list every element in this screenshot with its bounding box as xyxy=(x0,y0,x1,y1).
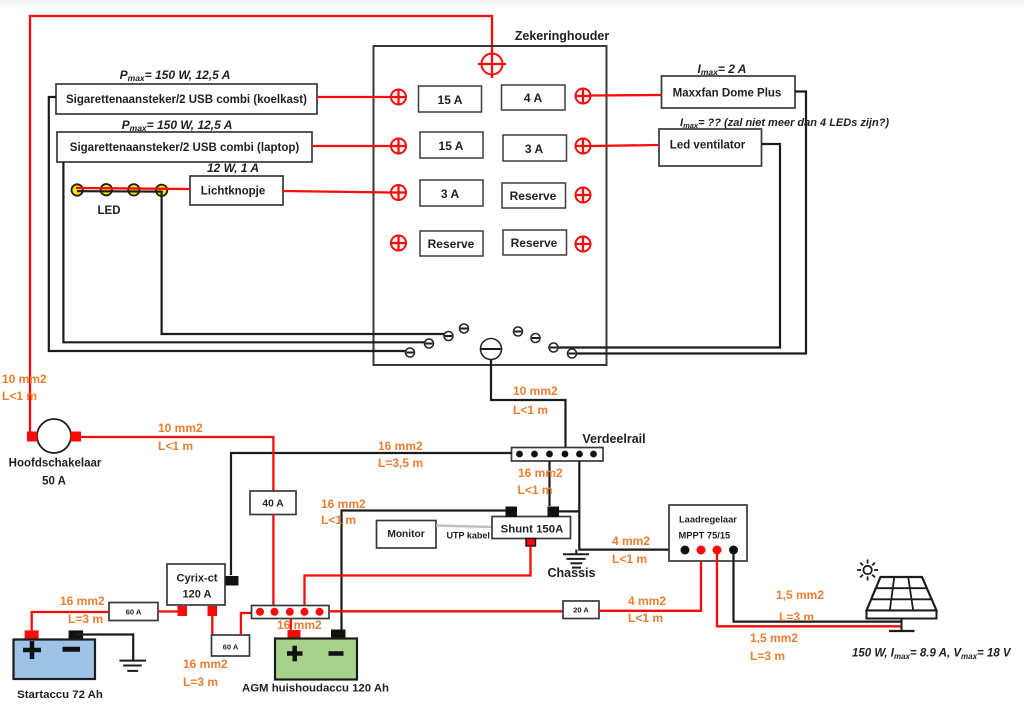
wire label 1,5 mm2 L=3 m (solar black) xyxy=(776,588,824,624)
wire: red LED feed from Lichtknopje to LED string xyxy=(76,188,190,189)
svg-text:L=3 m: L=3 m xyxy=(779,610,814,624)
svg-text:Reserve: Reserve xyxy=(428,237,475,251)
fuse F2 4A xyxy=(502,85,566,110)
svg-text:L<1 m: L<1 m xyxy=(628,611,663,625)
LED D1 xyxy=(72,184,83,195)
wire label 1,5 mm2 L=3 m (solar red) xyxy=(750,631,798,663)
wire label 16 mm2 L=3 m (startaccu) xyxy=(60,594,105,626)
wire label 16 mm2 L=3,5 m xyxy=(378,439,423,470)
wire: red Lichtknopje to fuse F5 xyxy=(283,191,391,193)
wire: red busbar to AGM plus xyxy=(290,619,292,631)
svg-text:Monitor: Monitor xyxy=(387,529,424,540)
svg-text:Verdeelrail: Verdeelrail xyxy=(582,432,645,446)
load box Maxxfan Dome Plus xyxy=(662,76,796,108)
fuse 20A box xyxy=(563,601,599,619)
wire: red 60A fuse1 to Cyrix xyxy=(158,610,178,612)
shunt terminal black left xyxy=(506,507,518,518)
LED D4 xyxy=(156,185,167,196)
shunt terminal red bottom xyxy=(526,539,536,547)
svg-text:1,5 mm2: 1,5 mm2 xyxy=(776,588,824,602)
ground terminal m2 xyxy=(425,339,434,348)
AGM terminal black minus xyxy=(331,630,346,640)
ground terminal m6 xyxy=(531,334,540,343)
wire: red koelkast to fuse F1 xyxy=(317,96,391,98)
ground terminal m1 xyxy=(406,348,415,357)
svg-text:40 A: 40 A xyxy=(262,499,284,510)
svg-text:Reserve: Reserve xyxy=(511,236,558,250)
LED D3 xyxy=(128,184,139,195)
svg-text:Imax= ?? (zal niet meer dan 4: Imax= ?? (zal niet meer dan 4 LEDs zijn?… xyxy=(680,117,889,130)
wire label 4 mm2 L<1 m (20A-MPPT) xyxy=(628,594,666,625)
wire: red busbar to 60A fuse1 path / Startaccu xyxy=(32,612,109,630)
load box: Sigarettenaansteker/2 USB combi (laptop) xyxy=(57,132,312,162)
svg-text:3 A: 3 A xyxy=(441,187,460,201)
svg-text:4 mm2: 4 mm2 xyxy=(612,534,650,548)
wire: black Verdeelrail to Cyrix xyxy=(231,453,512,575)
switch box Lichtknopje xyxy=(190,176,283,205)
Hoofdschakelaar switch xyxy=(27,419,81,453)
wire: black fuse holder ground to Verdeelrail xyxy=(491,360,566,448)
fuse F6 Reserve xyxy=(502,183,566,208)
wire: red 60A fuse2 to busbar xyxy=(241,613,252,635)
LED D2 xyxy=(101,184,112,195)
wire: red busbar to 20A fuse xyxy=(329,610,563,612)
Shunt 150A box xyxy=(492,517,571,539)
UTP cable (grey) xyxy=(436,526,492,528)
wire: main positive feed (red) from Hoofdschakelaar left terminal up, across top, down to fuse holder input xyxy=(30,16,492,433)
fuse terminal plus L1 xyxy=(391,89,407,105)
AGM huishoudaccu battery xyxy=(275,639,357,680)
red busbar xyxy=(252,606,330,619)
fuse F3 15A xyxy=(420,132,483,158)
fuse holder box Zekeringhouder xyxy=(374,46,607,365)
svg-text:10 mm2: 10 mm2 xyxy=(513,384,558,398)
svg-text:L<1 m: L<1 m xyxy=(321,513,356,527)
chassis ground symbol xyxy=(563,550,589,568)
wire: black laptop ground return xyxy=(63,162,424,342)
svg-text:Startaccu 72 Ah: Startaccu 72 Ah xyxy=(17,689,103,701)
svg-text:10 mm2: 10 mm2 xyxy=(2,372,47,386)
svg-text:4 mm2: 4 mm2 xyxy=(628,594,666,608)
fuse 60A box 1 xyxy=(109,603,158,621)
fuse F8 Reserve xyxy=(503,230,567,255)
svg-text:16 mm2: 16 mm2 xyxy=(60,594,105,608)
AGM terminal red plus xyxy=(288,630,301,639)
shunt terminal black right xyxy=(548,507,560,518)
wire: red Cyrix to 60A fuse2 xyxy=(211,616,213,636)
svg-text:L=3 m: L=3 m xyxy=(183,675,218,689)
wire: black Maxxfan ground return xyxy=(577,92,807,354)
fuse F5 3A xyxy=(420,180,483,206)
wire: red 40A fuse to busbar xyxy=(272,515,274,606)
svg-text:15 A: 15 A xyxy=(438,93,463,107)
Cyrix-ct relay box xyxy=(167,564,225,605)
svg-text:UTP kabel: UTP kabel xyxy=(447,531,490,541)
fuse terminal plus L3 xyxy=(391,185,407,201)
fuse terminal plus R1 xyxy=(575,88,591,104)
fuse 60A box 2 xyxy=(212,635,250,656)
wire: red Hoofdschakelaar to 40A fuse xyxy=(81,437,273,491)
Startaccu battery xyxy=(14,640,96,680)
svg-text:50 A: 50 A xyxy=(42,476,66,488)
ground symbol (startaccu) xyxy=(119,661,146,671)
svg-text:L<1 m: L<1 m xyxy=(518,483,553,497)
svg-text:LED: LED xyxy=(98,205,121,217)
Monitor box xyxy=(377,521,437,549)
label Hoofdschakelaar 50 A xyxy=(9,458,102,488)
ground terminal m7 xyxy=(549,343,558,352)
svg-text:Zekeringhouder: Zekeringhouder xyxy=(515,29,610,43)
svg-text:Reserve: Reserve xyxy=(510,189,557,203)
svg-text:16 mm2: 16 mm2 xyxy=(518,466,563,480)
wire: red 20A fuse to MPPT xyxy=(599,554,701,611)
fuse F7 Reserve xyxy=(420,231,483,256)
svg-text:L<1 m: L<1 m xyxy=(158,439,193,453)
wire: black koelkast ground return xyxy=(49,97,406,351)
main input terminal (plus) of fuse holder xyxy=(478,50,506,78)
wire: red fuse F4 to Led ventilator xyxy=(591,145,660,146)
Verdeelrail busbar xyxy=(512,448,604,462)
svg-text:Chassis: Chassis xyxy=(548,566,596,580)
svg-text:12 W, 1 A: 12 W, 1 A xyxy=(207,161,259,175)
svg-text:Laadregelaar: Laadregelaar xyxy=(679,515,737,525)
load box Led ventilator xyxy=(659,129,762,166)
svg-text:Sigarettenaansteker/2 USB comb: Sigarettenaansteker/2 USB combi (laptop) xyxy=(70,142,300,154)
svg-text:1,5 mm2: 1,5 mm2 xyxy=(750,631,798,645)
ground terminal m5 xyxy=(514,327,523,336)
load box: Sigarettenaansteker/2 USB combi (koelkast) xyxy=(56,84,317,114)
fuse terminal plus R2 xyxy=(575,138,591,154)
Cyrix terminal red left xyxy=(178,606,188,616)
svg-text:Lichtknopje: Lichtknopje xyxy=(201,186,266,198)
wire: black LED return chain xyxy=(77,191,444,334)
svg-text:120 A: 120 A xyxy=(183,589,212,601)
wire: black Startaccu minus to ground xyxy=(76,635,133,661)
svg-text:L<1 m: L<1 m xyxy=(513,403,548,417)
wire: red MPPT to solar panel xyxy=(717,554,902,626)
svg-text:L=3 m: L=3 m xyxy=(750,649,785,663)
svg-text:60 A: 60 A xyxy=(126,608,142,617)
svg-text:16 mm2: 16 mm2 xyxy=(321,497,366,511)
wire: black Led ventilator ground return xyxy=(558,144,780,348)
wire label 16 mm2 L<1 m (shunt-AGM) xyxy=(321,497,366,527)
wire label 10 mm2 L<1 m (fuseholder-rail) xyxy=(513,384,558,417)
fuse terminal plus R3 xyxy=(575,187,592,204)
wire: black shunt to AGM minus xyxy=(342,511,506,631)
solar panel xyxy=(867,577,937,631)
svg-text:MPPT 75/15: MPPT 75/15 xyxy=(679,531,731,541)
main ground terminal of fuse holder xyxy=(481,339,502,360)
wire label 16 mm2 L<1 m (rail-shunt) xyxy=(518,466,564,497)
svg-text:15 A: 15 A xyxy=(439,139,464,153)
fuse terminal plus R4 xyxy=(575,236,592,253)
svg-text:L<1 m: L<1 m xyxy=(612,552,647,566)
Startaccu terminal black minus xyxy=(69,630,84,639)
wire: black shunt right terminal to chassis node xyxy=(559,510,579,512)
svg-text:16 mm2: 16 mm2 xyxy=(277,618,322,632)
svg-text:Hoofdschakelaar: Hoofdschakelaar xyxy=(9,458,102,470)
fuse F1 15A xyxy=(419,86,482,112)
svg-text:20 A: 20 A xyxy=(573,606,589,615)
svg-text:Shunt 150A: Shunt 150A xyxy=(501,524,564,536)
svg-text:16 mm2: 16 mm2 xyxy=(378,439,423,453)
svg-text:AGM huishoudaccu 120 Ah: AGM huishoudaccu 120 Ah xyxy=(242,683,389,695)
svg-text:Maxxfan Dome Plus: Maxxfan Dome Plus xyxy=(673,88,782,100)
svg-text:Led ventilator: Led ventilator xyxy=(670,140,746,152)
wire label 16 mm2 L=3 m (AGM-cyrix) xyxy=(183,657,228,689)
svg-text:L=3,5 m: L=3,5 m xyxy=(378,456,423,470)
wire label 10 mm2 L<1 m (left feed) xyxy=(2,372,47,403)
wire: black MPPT to solar panel xyxy=(734,554,902,622)
svg-text:10 mm2: 10 mm2 xyxy=(158,421,203,435)
fuse F4 3A xyxy=(503,135,567,161)
svg-text:4 A: 4 A xyxy=(524,91,543,105)
wire: black Verdeelrail to chassis and MPPT xyxy=(579,461,685,550)
svg-text:L<1 m: L<1 m xyxy=(2,389,37,403)
svg-text:3 A: 3 A xyxy=(525,142,544,156)
fuse 40A box xyxy=(250,491,296,515)
svg-text:150 W, Imax= 8.9 A, Vmax= 18 V: 150 W, Imax= 8.9 A, Vmax= 18 V xyxy=(852,648,1012,662)
wire label 10 mm2 L<1 m (switch-40A) xyxy=(158,421,203,453)
ground terminal m3 xyxy=(444,332,453,341)
svg-text:L=3 m: L=3 m xyxy=(68,612,103,626)
Cyrix terminal black right xyxy=(226,576,239,586)
wire: red shunt to busbar xyxy=(305,546,531,606)
Cyrix terminal red right xyxy=(208,606,218,616)
wire: red laptop to fuse F3 xyxy=(312,145,391,147)
fuse terminal plus L2 xyxy=(391,138,407,154)
Startaccu terminal red plus xyxy=(25,630,39,639)
svg-text:Cyrix-ct: Cyrix-ct xyxy=(177,573,218,585)
wire label 4 mm2 L<1 m (chassis-MPPT) xyxy=(612,534,650,566)
svg-text:60 A: 60 A xyxy=(223,643,239,652)
svg-text:Sigarettenaansteker/2 USB comb: Sigarettenaansteker/2 USB combi (koelkas… xyxy=(66,94,307,106)
svg-text:16 mm2: 16 mm2 xyxy=(183,657,228,671)
fuse terminal plus L4 xyxy=(390,235,407,252)
wire: black Verdeelrail to shunt xyxy=(548,461,550,506)
Laadregelaar MPPT box xyxy=(669,505,747,561)
ground terminal m4 xyxy=(460,324,469,333)
ground terminal m8 xyxy=(568,349,577,358)
sun icon xyxy=(857,560,878,581)
wire: red fuse F2 to Maxxfan xyxy=(591,94,662,97)
